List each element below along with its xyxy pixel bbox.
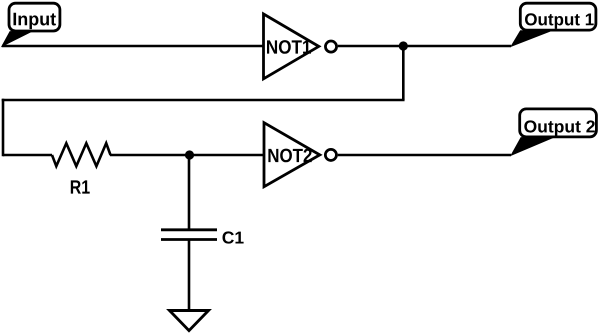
inverter NOT2 triangle [264, 123, 320, 187]
wire to R1 [3, 154, 52, 157]
node B junction dot [185, 150, 194, 159]
label NOT2 [268, 149, 311, 163]
wire C1 to ground [188, 240, 191, 312]
resistor R1 zigzag [52, 143, 111, 166]
label NOT1 [267, 40, 311, 54]
wire R1 to node B [110, 154, 190, 157]
wire feedback vertical from node A [402, 46, 405, 100]
wire feedback horizontal [2, 99, 405, 102]
wire NOT1 output to Output 1 [338, 45, 511, 48]
ground [170, 311, 209, 331]
wire node B down to C1 [188, 155, 191, 231]
inverter NOT2 bubble [325, 149, 336, 160]
capacitor C1 top plate [161, 228, 217, 231]
capacitor C1 bottom plate [161, 238, 217, 241]
wire node B to NOT2 [190, 154, 265, 157]
inverter NOT1 triangle [264, 14, 319, 79]
node Input flag box [2, 3, 60, 46]
node Output 2 flag box [511, 109, 596, 155]
label C1 [222, 231, 243, 243]
node A junction dot [399, 41, 408, 50]
node Output 1 flag box [511, 3, 596, 46]
wire input to NOT1 [2, 45, 263, 48]
inverter NOT1 bubble [325, 41, 336, 52]
wire NOT2 output to Output 2 [338, 154, 511, 157]
wire feedback left vertical [2, 99, 5, 157]
label R1 [71, 180, 90, 193]
